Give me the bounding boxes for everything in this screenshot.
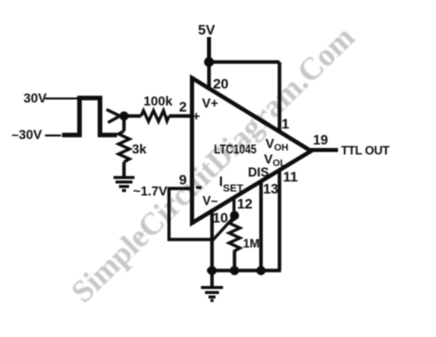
wire pin 10 vertical: [210, 209, 214, 271]
wire 100k to pin 2: [169, 114, 192, 117]
pin 11 wire vertical: [278, 170, 282, 271]
svg-text:TTL OUT: TTL OUT: [341, 144, 390, 158]
wire thin 30V reference line: [45, 98, 79, 100]
node dot top of 1M: [230, 211, 239, 220]
pin 19 wire output: [308, 148, 338, 152]
wire thin -30V reference line: [45, 135, 61, 137]
ground symbol bottom: [201, 288, 223, 301]
node dot pin13 on bus: [256, 266, 265, 275]
svg-text:1: 1: [282, 116, 290, 132]
wire 1M bottom lead: [233, 251, 236, 271]
node dot pin10 on bus: [207, 266, 216, 275]
input pulse waveform: [62, 98, 117, 135]
wire pin 9 horizontal: [168, 187, 193, 190]
svg-text:LTC1045: LTC1045: [214, 142, 257, 156]
wire 3k top lead from node: [122, 116, 125, 131]
node junction dot at 5V rail split: [204, 57, 214, 67]
svg-text:+: +: [193, 109, 201, 124]
svg-text:9: 9: [179, 172, 187, 188]
svg-text:19: 19: [313, 133, 328, 148]
wire 5V junction to VOH (top horizontal): [209, 60, 280, 64]
svg-text:–30V: –30V: [12, 127, 43, 142]
svg-text:13: 13: [263, 181, 279, 197]
label minus input marker: [196, 186, 202, 189]
op-amp U1 LTC1045 triangle body: [192, 78, 311, 223]
svg-text:20: 20: [213, 76, 229, 92]
svg-text:DIS: DIS: [248, 166, 269, 180]
wire node to 100k: [124, 114, 141, 117]
wire diagonal 1M top to V- net: [212, 217, 234, 241]
resistor R3 1M zigzag: [229, 219, 240, 256]
svg-text:12: 12: [237, 196, 253, 212]
svg-text:30V: 30V: [24, 91, 47, 106]
resistor R2 3k zigzag: [119, 131, 130, 162]
svg-text:1M: 1M: [243, 237, 260, 251]
pin 12 stub: [233, 199, 236, 213]
wire pin9 down and right to pin10 net: [169, 189, 212, 240]
svg-text:5V: 5V: [198, 22, 216, 38]
svg-text:VOL: VOL: [264, 152, 286, 170]
svg-text:100k: 100k: [144, 94, 174, 109]
node dot 1M on bus: [230, 266, 239, 275]
resistor R1 100k zigzag: [141, 111, 169, 122]
svg-text:3k: 3k: [132, 142, 147, 157]
arrow chevron into input node: [107, 110, 121, 123]
wire ground stub: [210, 271, 213, 287]
svg-text:V+: V+: [202, 96, 219, 111]
svg-text:V–: V–: [203, 194, 218, 208]
pin 13 wire vertical: [259, 181, 263, 271]
ground symbol under 3k: [114, 178, 135, 191]
wire ground bus: [207, 269, 281, 273]
svg-text:~1.7V: ~1.7V: [133, 184, 168, 199]
wire 3k bottom lead: [122, 162, 125, 176]
wire pin 20 from junction into triangle: [207, 62, 211, 90]
svg-text:10: 10: [213, 210, 229, 226]
svg-text:ISET: ISET: [219, 173, 244, 195]
svg-text:2: 2: [179, 99, 187, 115]
wire down right side to pin 1 VOH: [278, 62, 282, 131]
svg-text:11: 11: [283, 169, 298, 185]
node input junction dot: [119, 111, 128, 120]
wire 5V lead down to junction: [207, 37, 211, 60]
